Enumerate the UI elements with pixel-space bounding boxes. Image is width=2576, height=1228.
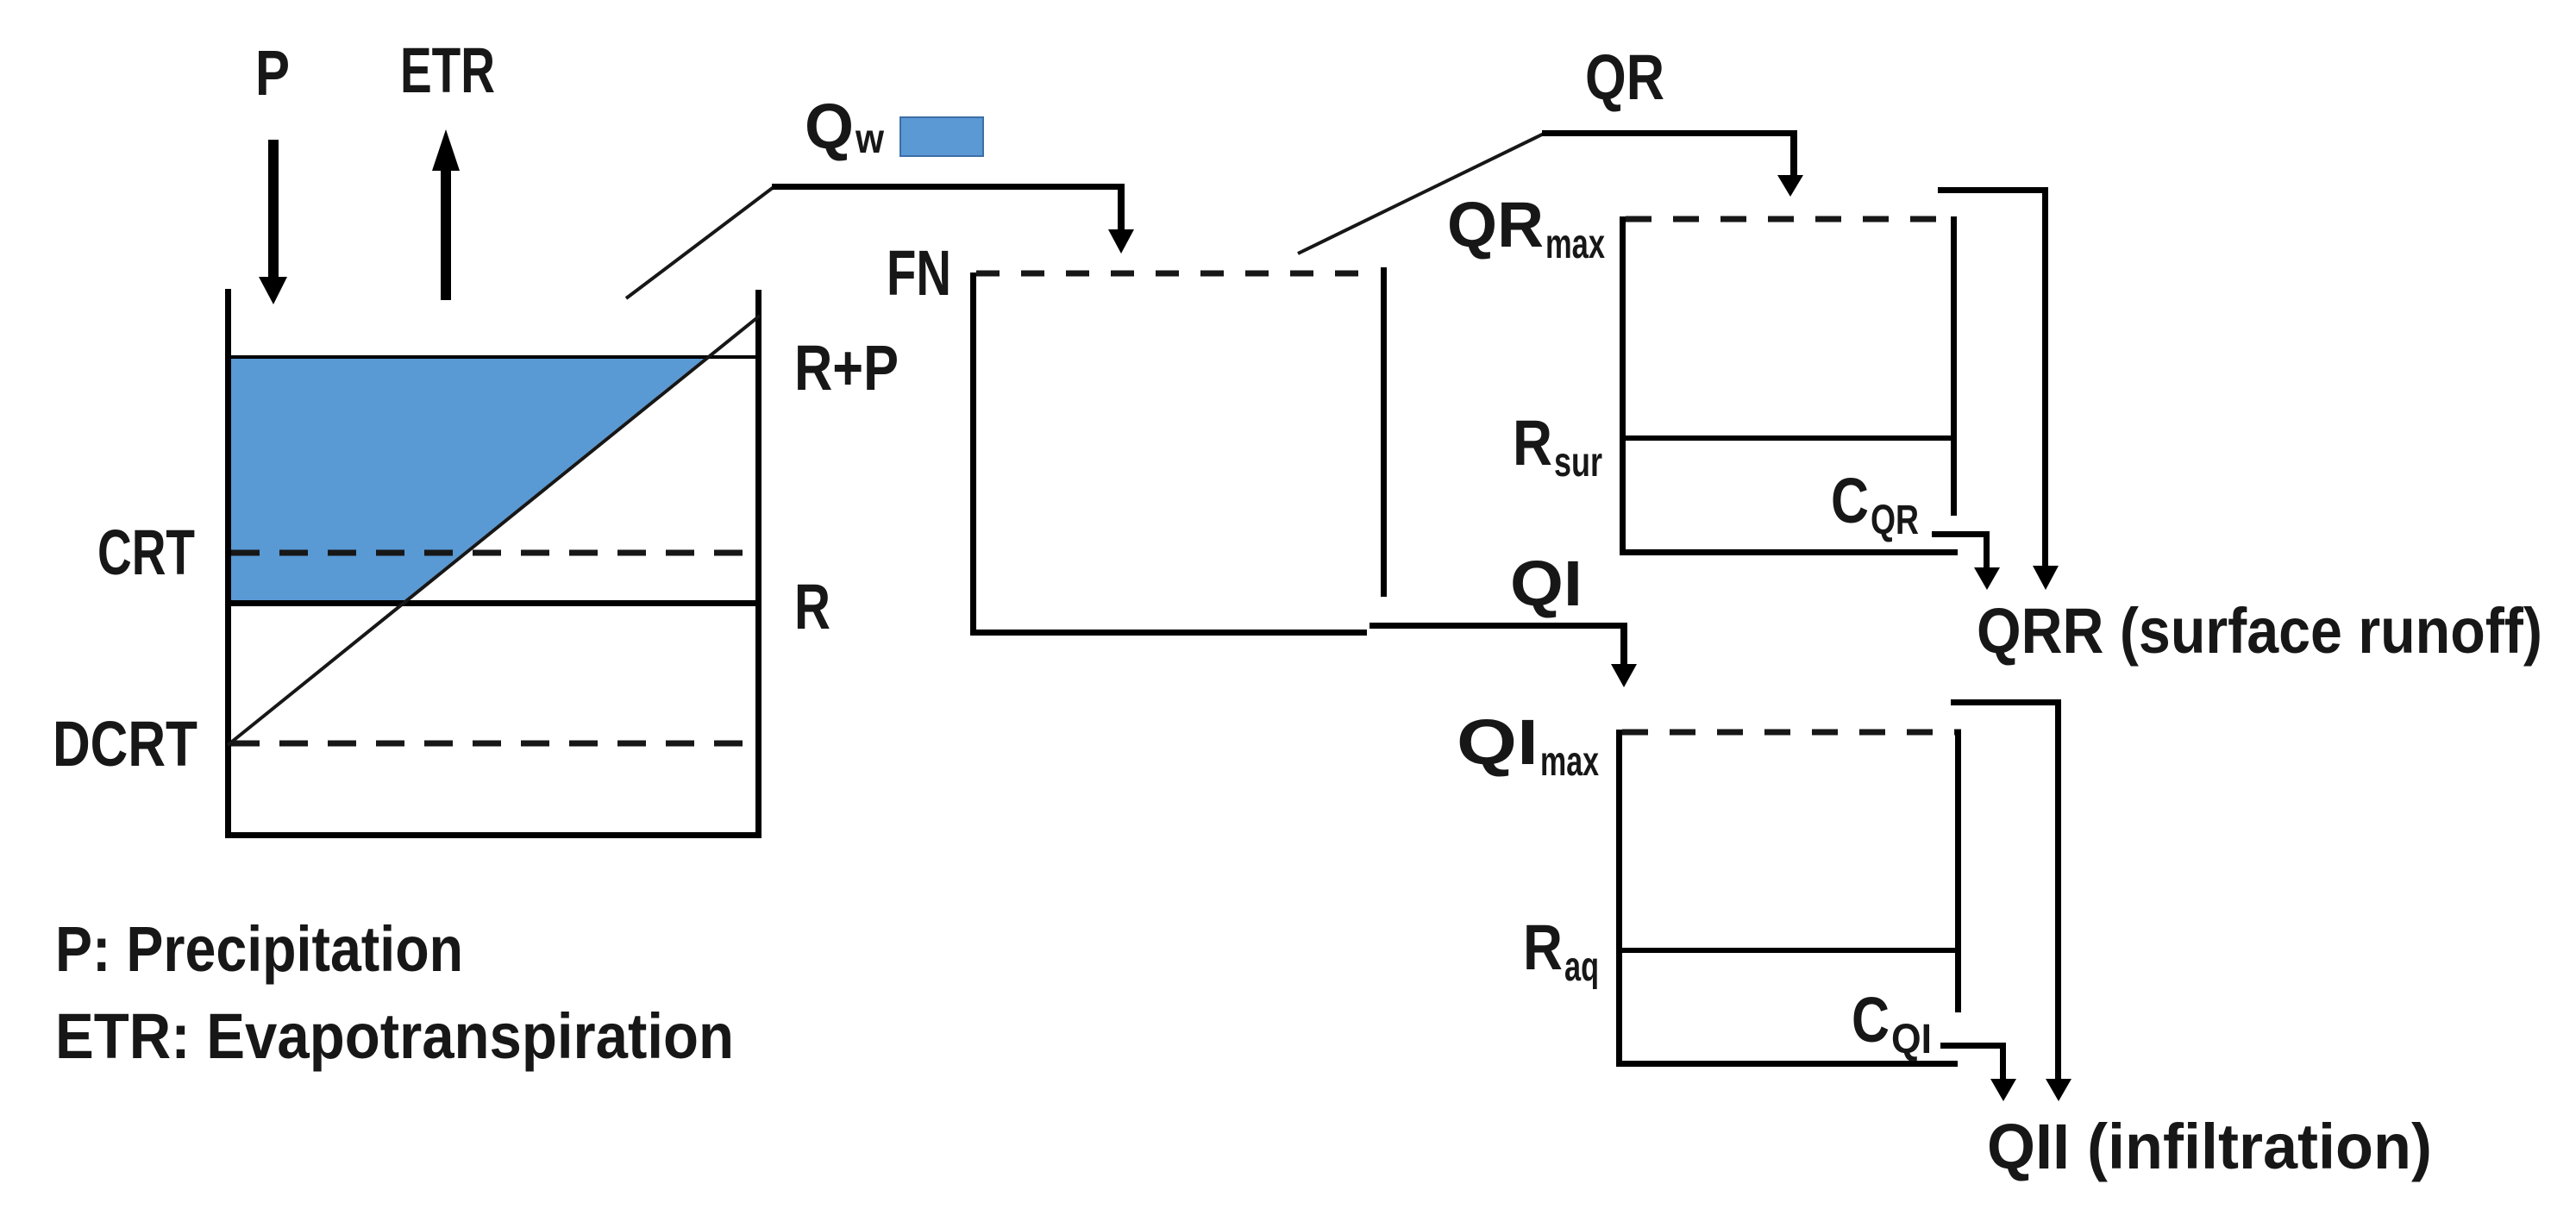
- node FN label: [887, 237, 951, 309]
- wire CQI outlet horizontal: [1940, 1043, 2006, 1049]
- wire QI overflow vertical: [2055, 699, 2061, 1079]
- svg-text:R: R: [794, 571, 830, 642]
- FN box right wall: [1381, 267, 1387, 597]
- node Rsur level line: [1626, 435, 1951, 441]
- soil reservoir right wall: [755, 290, 762, 838]
- svg-text:aq: aq: [1564, 944, 1599, 990]
- wire QR horizontal feed: [1542, 130, 1797, 136]
- Qw arrowhead into FN: [1108, 229, 1134, 254]
- node Raq label: [1523, 912, 1599, 990]
- svg-text:ETR: ETR: [400, 34, 495, 106]
- node QRR output label: [1977, 595, 2542, 667]
- wire QI vertical drop: [1620, 623, 1627, 666]
- svg-text:P: Precipitation: P: Precipitation: [55, 913, 463, 985]
- svg-text:QI: QI: [1510, 548, 1583, 619]
- node P label: [255, 37, 290, 109]
- wire QI overflow horizontal: [1951, 699, 2061, 705]
- svg-text:max: max: [1540, 739, 1599, 785]
- wire FN to QR diagonal: [1298, 134, 1544, 254]
- Qw blue legend swatch: [900, 117, 983, 156]
- legend ETR definition: [55, 1000, 734, 1072]
- soil reservoir blue storage area: [229, 358, 705, 604]
- svg-text:w: w: [855, 116, 884, 162]
- QR arrowhead into QR reservoir: [1777, 175, 1803, 197]
- QR reservoir dashed top: [1626, 216, 1946, 222]
- wire CQR outlet horizontal: [1932, 531, 1990, 537]
- node Qw label: [805, 91, 885, 162]
- svg-text:R+P: R+P: [794, 332, 899, 404]
- svg-text:QR: QR: [1585, 41, 1664, 113]
- svg-text:P: P: [255, 37, 290, 109]
- QI reservoir bottom wall: [1616, 1061, 1958, 1067]
- node DCRT dashed level line: [231, 741, 755, 747]
- FN box dashed top: [976, 271, 1373, 277]
- CQI outlet arrowhead: [1990, 1079, 2016, 1101]
- node DCRT label: [53, 708, 197, 780]
- node R label: [794, 571, 830, 642]
- svg-text:C: C: [1852, 984, 1890, 1056]
- svg-text:QR: QR: [1447, 189, 1544, 260]
- svg-text:QR: QR: [1871, 498, 1919, 543]
- svg-text:R: R: [1513, 407, 1552, 479]
- node QRmax label: [1447, 189, 1605, 267]
- node QImax label: [1457, 706, 1599, 785]
- node Raq level line: [1622, 948, 1955, 953]
- svg-text:C: C: [1831, 465, 1869, 536]
- svg-text:R: R: [1523, 912, 1563, 983]
- CQR outlet arrowhead: [1974, 567, 2000, 590]
- wire QR overflow horizontal: [1938, 187, 2048, 193]
- svg-text:ETR: Evapotranspiration: ETR: Evapotranspiration: [55, 1000, 734, 1072]
- node R level line: [231, 600, 755, 606]
- wire Qw diagonal from soil reservoir: [626, 187, 774, 298]
- node CQI label: [1852, 984, 1932, 1062]
- wire CQR outlet vertical: [1984, 531, 1990, 569]
- QI arrowhead into QI reservoir: [1611, 664, 1637, 687]
- wire CQI outlet vertical: [2000, 1043, 2006, 1081]
- node R+P level line: [231, 355, 755, 359]
- QI reservoir left wall: [1616, 730, 1622, 1067]
- node R+P label: [794, 332, 899, 404]
- svg-text:QI: QI: [1457, 706, 1539, 778]
- svg-text:CRT: CRT: [97, 517, 195, 588]
- QR reservoir right wall: [1951, 216, 1957, 516]
- QI reservoir right wall: [1955, 730, 1961, 1012]
- ETR evapotranspiration arrow: [432, 129, 460, 300]
- node QII output label: [1987, 1111, 2432, 1182]
- QR reservoir left wall: [1620, 216, 1626, 555]
- QR reservoir bottom wall: [1620, 549, 1958, 555]
- node CRT dashed level line: [231, 550, 755, 556]
- QI reservoir dashed top: [1622, 730, 1961, 736]
- wire QI horizontal feed: [1369, 623, 1626, 629]
- QR overflow arrowhead: [2033, 566, 2059, 590]
- node ETR label: [400, 34, 495, 106]
- svg-text:QRR (surface runoff): QRR (surface runoff): [1977, 595, 2542, 667]
- wire Qw vertical drop: [1118, 184, 1125, 231]
- FN box left wall: [970, 273, 976, 636]
- soil reservoir left wall: [225, 289, 231, 838]
- svg-text:QII (infiltration): QII (infiltration): [1987, 1111, 2432, 1182]
- wire QR overflow vertical: [2042, 187, 2048, 567]
- legend P definition: [55, 913, 463, 985]
- P precipitation arrow: [259, 140, 287, 304]
- svg-text:DCRT: DCRT: [53, 708, 197, 780]
- node CQR label: [1831, 465, 1919, 543]
- svg-text:max: max: [1545, 222, 1605, 267]
- node QI label: [1510, 548, 1583, 619]
- svg-text:QI: QI: [1891, 1017, 1932, 1062]
- svg-text:FN: FN: [887, 237, 951, 309]
- svg-text:sur: sur: [1554, 440, 1602, 486]
- wire Qw horizontal to FN: [772, 184, 1124, 190]
- wire QR vertical drop: [1790, 130, 1797, 177]
- svg-text:Q: Q: [805, 91, 854, 162]
- QI overflow arrowhead: [2046, 1079, 2071, 1101]
- soil storage diagonal line: [228, 316, 760, 745]
- soil reservoir bottom wall: [225, 832, 762, 838]
- node CRT label: [97, 517, 195, 588]
- node QR label: [1585, 41, 1664, 113]
- FN box bottom wall: [970, 630, 1367, 636]
- node Rsur label: [1513, 407, 1602, 486]
